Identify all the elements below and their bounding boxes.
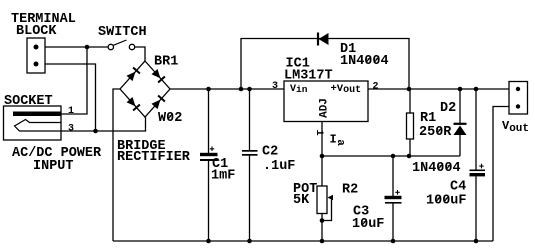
- svg-text:C2: C2: [262, 145, 278, 160]
- svg-text:2: 2: [373, 82, 379, 93]
- svg-text:R1: R1: [420, 111, 436, 126]
- svg-text:3: 3: [272, 81, 278, 92]
- svg-text:.1uF: .1uF: [263, 159, 295, 174]
- svg-text:SOCKET: SOCKET: [4, 94, 53, 109]
- svg-text:BLOCK: BLOCK: [16, 24, 57, 39]
- svg-text:1N4004: 1N4004: [412, 161, 461, 176]
- svg-text:a: a: [334, 139, 346, 146]
- svg-text:BR1: BR1: [154, 55, 178, 70]
- svg-text:1: 1: [313, 129, 325, 135]
- svg-text:1: 1: [68, 106, 74, 117]
- svg-text:100uF: 100uF: [426, 194, 467, 209]
- svg-text:D2: D2: [440, 101, 456, 116]
- svg-text:W02: W02: [158, 111, 182, 126]
- svg-text:Vin: Vin: [290, 84, 308, 95]
- svg-text:R2: R2: [342, 183, 358, 198]
- svg-text:+Vout: +Vout: [331, 83, 362, 96]
- svg-text:3: 3: [68, 123, 74, 134]
- svg-text:1N4004: 1N4004: [340, 54, 389, 69]
- svg-text:1mF: 1mF: [211, 169, 235, 184]
- svg-text:LM317T: LM317T: [284, 68, 333, 83]
- svg-text:INPUT: INPUT: [33, 159, 74, 174]
- svg-text:10uF: 10uF: [352, 217, 384, 232]
- svg-text:250R: 250R: [419, 125, 452, 140]
- svg-text:C4: C4: [450, 180, 466, 195]
- svg-text:ADJ: ADJ: [319, 98, 331, 118]
- svg-text:RECTIFIER: RECTIFIER: [117, 150, 191, 165]
- svg-text:SWITCH: SWITCH: [98, 25, 147, 40]
- svg-text:5K: 5K: [293, 193, 310, 208]
